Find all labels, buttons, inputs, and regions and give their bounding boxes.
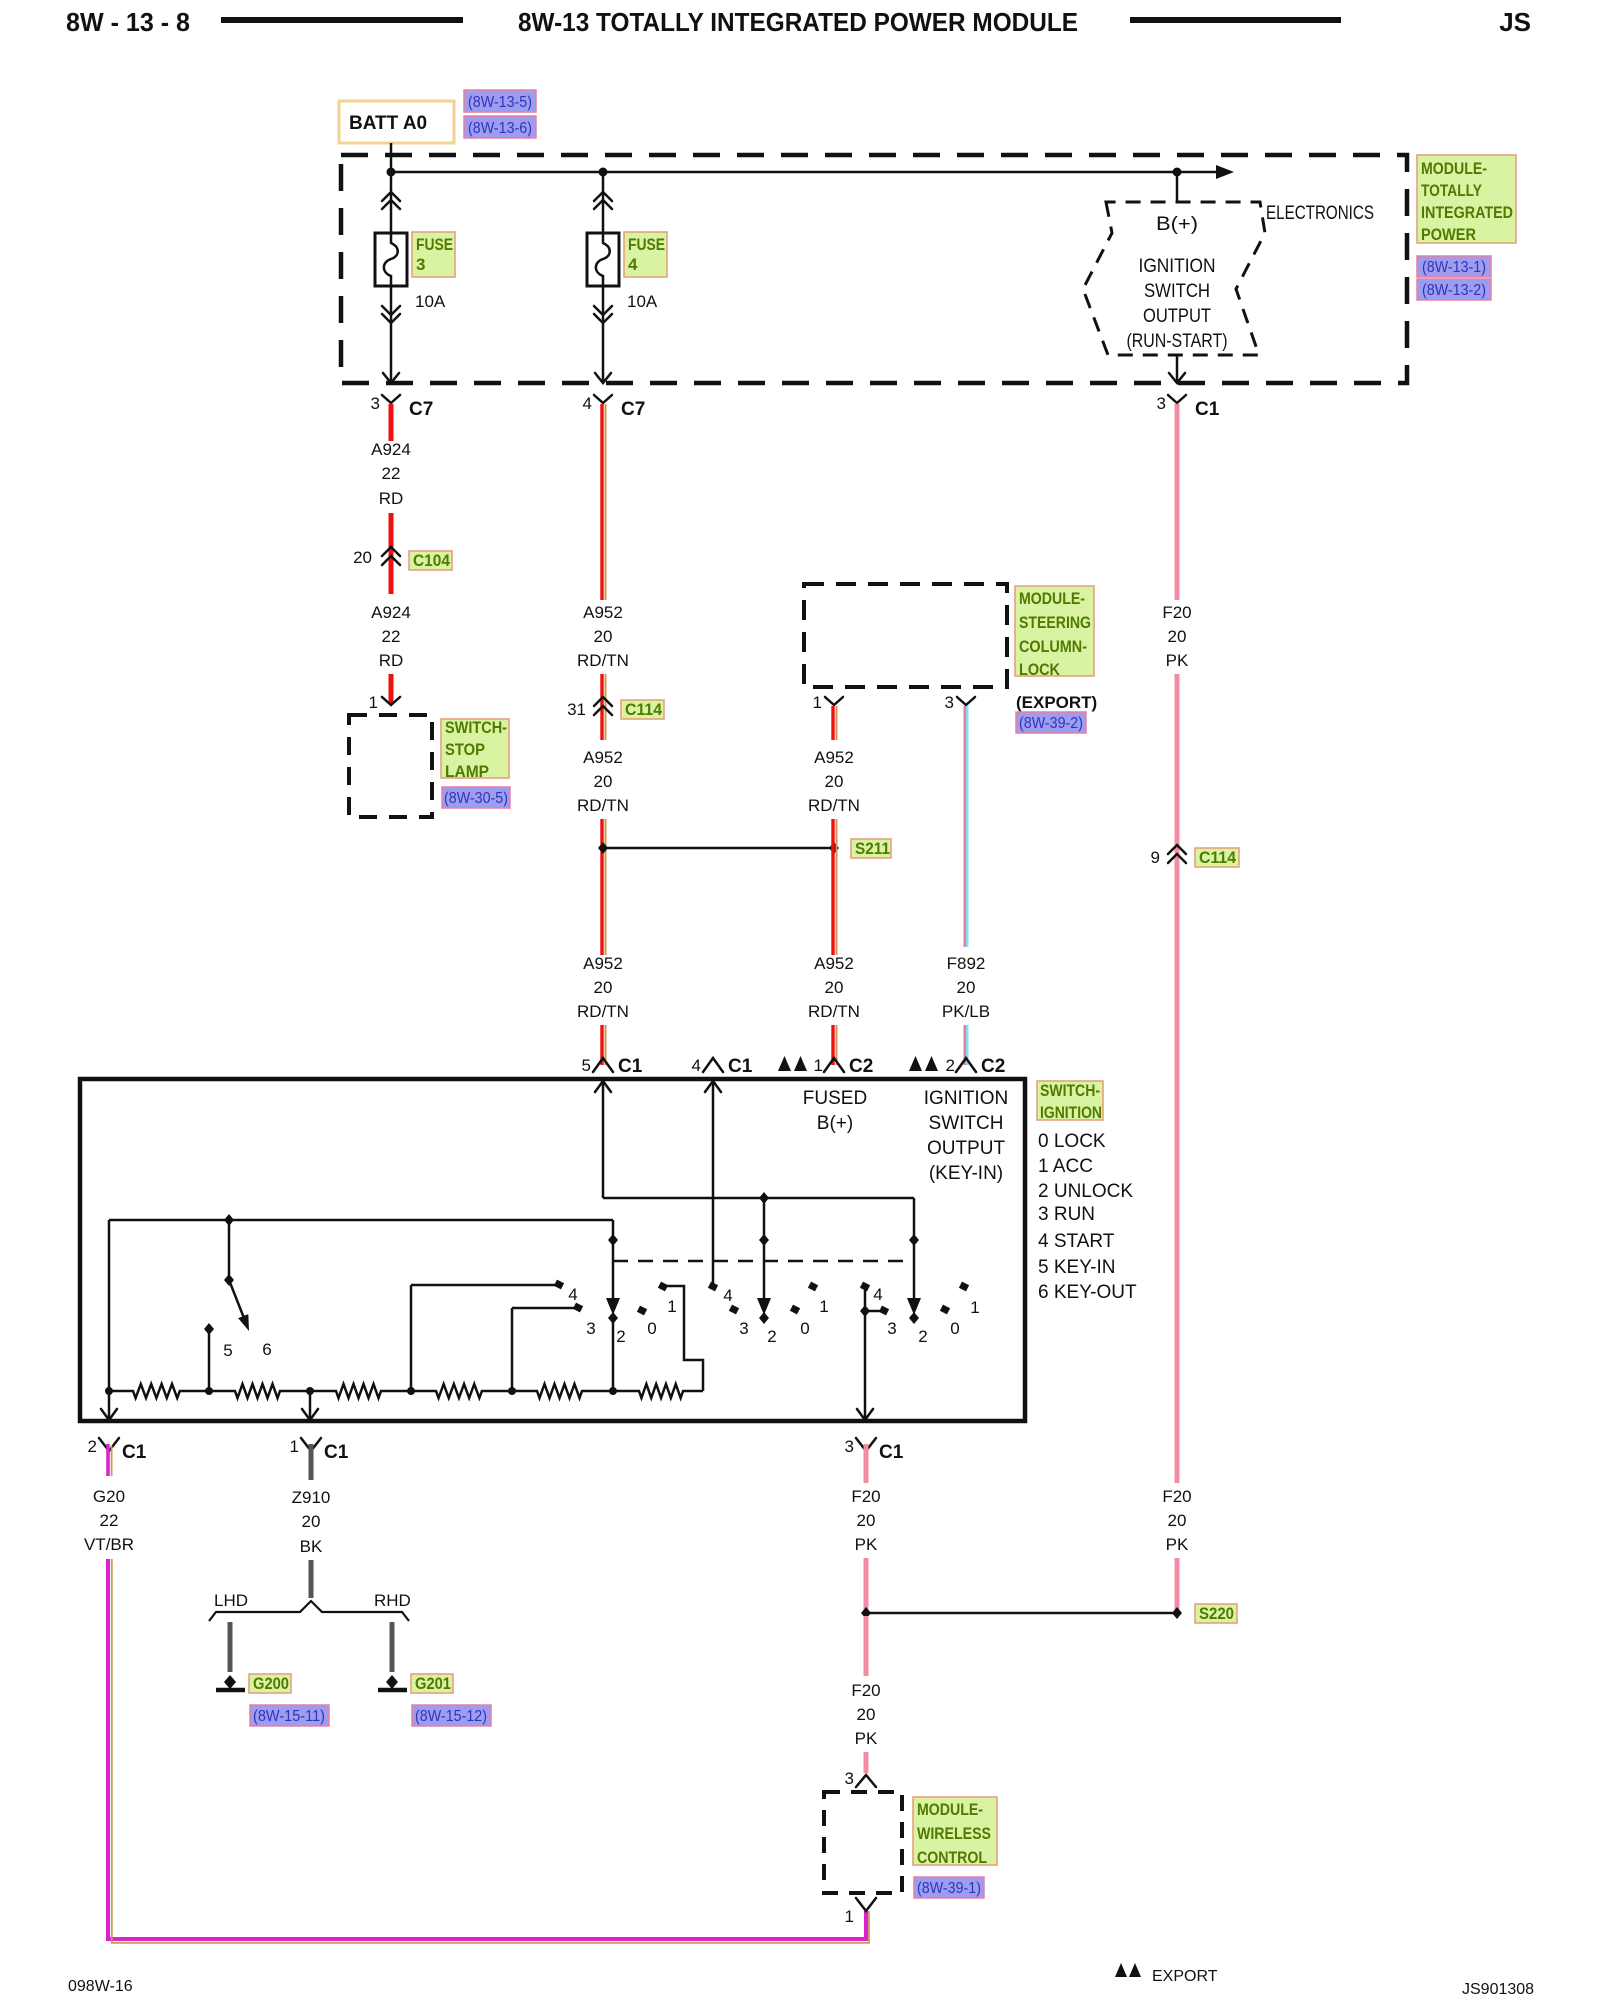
svg-text:3: 3 bbox=[416, 255, 425, 274]
label A924 22 RD lower bbox=[371, 603, 411, 670]
svg-text:C114: C114 bbox=[625, 700, 663, 719]
svg-text:20: 20 bbox=[594, 627, 613, 646]
svg-text:S211: S211 bbox=[855, 839, 890, 858]
footer drawing number bbox=[1462, 1981, 1534, 1998]
svg-text:4 START: 4 START bbox=[1038, 1231, 1115, 1252]
wire F20 PK from switch bbox=[864, 1444, 869, 1483]
svg-text:4: 4 bbox=[873, 1285, 882, 1304]
svg-text:C1: C1 bbox=[618, 1056, 643, 1077]
svg-text:20: 20 bbox=[594, 978, 613, 997]
label C114 right bbox=[1195, 848, 1239, 867]
svg-text:CONTROL: CONTROL bbox=[917, 1848, 987, 1867]
wire F20 PK below S220 bbox=[864, 1616, 869, 1676]
wire B+ bus bbox=[391, 171, 1216, 174]
svg-text:C7: C7 bbox=[621, 399, 645, 420]
label G200 bbox=[249, 1674, 291, 1693]
wire F20 PK to S220 bbox=[1175, 1558, 1180, 1610]
bank2 contact 3 bbox=[729, 1305, 749, 1338]
svg-text:20: 20 bbox=[957, 978, 976, 997]
link 8W-30-5 bbox=[442, 787, 510, 808]
svg-text:22: 22 bbox=[382, 464, 401, 483]
svg-text:RD/TN: RD/TN bbox=[577, 651, 629, 670]
svg-text:10A: 10A bbox=[415, 292, 446, 311]
svg-text:PK: PK bbox=[855, 1729, 878, 1748]
svg-text:5: 5 bbox=[223, 1341, 232, 1360]
svg-text:C1: C1 bbox=[728, 1056, 753, 1077]
svg-text:A952: A952 bbox=[583, 954, 623, 973]
label MODULE-TOTALLY INTEGRATED POWER bbox=[1417, 155, 1516, 244]
switch bank1 arm bbox=[606, 1220, 626, 1391]
switch bank3 arm bbox=[907, 1198, 928, 1346]
svg-text:F20: F20 bbox=[1162, 1487, 1191, 1506]
svg-text:20: 20 bbox=[825, 978, 844, 997]
label FUSE 3 bbox=[412, 232, 455, 277]
wire ignition output from C1 pin 4 bbox=[705, 1080, 721, 1284]
svg-text:OUTPUT: OUTPUT bbox=[1143, 306, 1211, 327]
svg-text:20: 20 bbox=[825, 772, 844, 791]
svg-text:(EXPORT): (EXPORT) bbox=[1016, 693, 1097, 712]
svg-text:20: 20 bbox=[1168, 627, 1187, 646]
wire key-in feed from C1 pin 5 bbox=[595, 1080, 914, 1198]
label S220 bbox=[1195, 1604, 1237, 1623]
switch left rail bbox=[101, 1220, 117, 1420]
connector wireless pin 1 bbox=[845, 1898, 876, 1926]
svg-text:JS: JS bbox=[1499, 7, 1531, 37]
resistive track bbox=[109, 1384, 703, 1398]
header page number bbox=[66, 7, 190, 37]
track output to C1 pin 1 bbox=[302, 1391, 318, 1420]
svg-text:0: 0 bbox=[800, 1319, 809, 1338]
svg-text:BATT A0: BATT A0 bbox=[349, 113, 427, 134]
svg-text:PK: PK bbox=[1166, 1535, 1189, 1554]
svg-text:1: 1 bbox=[290, 1437, 299, 1456]
label A952 20 RD/TN col B lower bbox=[577, 954, 629, 1021]
svg-text:LAMP: LAMP bbox=[445, 762, 489, 781]
link 8W-13-5 bbox=[464, 90, 536, 112]
svg-text:20: 20 bbox=[302, 1512, 321, 1531]
footer export legend bbox=[1115, 1963, 1218, 1985]
key lever bbox=[224, 1220, 249, 1331]
svg-text:SWITCH: SWITCH bbox=[929, 1113, 1004, 1134]
svg-text:8W-13 TOTALLY INTEGRATED POWER: 8W-13 TOTALLY INTEGRATED POWER MODULE bbox=[518, 7, 1078, 37]
link 8W-15-12 bbox=[412, 1705, 491, 1726]
svg-text:1: 1 bbox=[667, 1297, 676, 1316]
wire G20 VT/BR upper bbox=[108, 1444, 112, 1476]
svg-text:5: 5 bbox=[582, 1056, 591, 1075]
svg-text:Z910: Z910 bbox=[292, 1488, 331, 1507]
link 8W-15-11 bbox=[250, 1705, 329, 1726]
svg-text:(RUN-START): (RUN-START) bbox=[1127, 331, 1228, 352]
connector C1 pin 5 bbox=[582, 1056, 643, 1077]
wire F20 PK to wireless module bbox=[864, 1752, 869, 1773]
link 8W-13-1 bbox=[1417, 256, 1491, 277]
svg-text:4: 4 bbox=[723, 1286, 732, 1305]
label S211 bbox=[851, 839, 891, 858]
svg-text:10A: 10A bbox=[627, 292, 658, 311]
label 10A fuse 4 bbox=[627, 292, 658, 311]
label C114 bbox=[621, 700, 664, 719]
link 8W-13-6 bbox=[464, 116, 536, 138]
connector steering lock pin 3 bbox=[945, 693, 975, 712]
svg-text:A924: A924 bbox=[371, 440, 411, 459]
label F20 20 PK left lower bbox=[851, 1681, 880, 1748]
svg-text:TOTALLY: TOTALLY bbox=[1421, 181, 1483, 200]
svg-text:0: 0 bbox=[950, 1319, 959, 1338]
wire LHD ground leg bbox=[228, 1622, 233, 1672]
svg-text:(8W-15-11): (8W-15-11) bbox=[253, 1708, 325, 1725]
svg-text:3 RUN: 3 RUN bbox=[1038, 1204, 1095, 1225]
fuse F3 assembly bbox=[375, 172, 407, 383]
svg-text:20: 20 bbox=[1168, 1511, 1187, 1530]
svg-text:VT/BR: VT/BR bbox=[84, 1535, 134, 1554]
label FUSED B(+) bbox=[803, 1088, 867, 1134]
svg-text:(8W-13-6): (8W-13-6) bbox=[468, 120, 532, 137]
bank2 contact 0 bbox=[790, 1305, 810, 1338]
svg-text:G20: G20 bbox=[93, 1487, 125, 1506]
connector C2 pin 2 with export triangles bbox=[909, 1056, 1005, 1077]
svg-text:PK/LB: PK/LB bbox=[942, 1002, 990, 1021]
wire battery to bus bbox=[390, 143, 393, 172]
svg-text:C7: C7 bbox=[409, 399, 433, 420]
svg-text:SWITCH-: SWITCH- bbox=[1040, 1081, 1100, 1100]
label A924 22 RD upper bbox=[371, 440, 411, 508]
wire electronics output bbox=[1169, 355, 1185, 383]
connector steering lock pin 1 bbox=[813, 693, 843, 712]
svg-text:4: 4 bbox=[568, 1285, 577, 1304]
wire A952 through S211 left bbox=[602, 819, 606, 955]
ground G200 bbox=[216, 1675, 245, 1690]
svg-text:22: 22 bbox=[100, 1511, 119, 1530]
bank1 contact 0 bbox=[637, 1306, 657, 1338]
svg-text:A924: A924 bbox=[371, 603, 411, 622]
svg-text:2: 2 bbox=[767, 1327, 776, 1346]
link 8W-39-1 bbox=[914, 1877, 984, 1898]
switch stop lamp dashed box bbox=[349, 715, 432, 817]
link 8W-39-2 bbox=[1016, 712, 1086, 733]
svg-text:WIRELESS: WIRELESS bbox=[917, 1824, 991, 1843]
svg-text:20: 20 bbox=[857, 1511, 876, 1530]
junction at fuse 4 bbox=[599, 168, 608, 177]
connector C1 pin 1 bottom bbox=[290, 1437, 349, 1463]
link 8W-13-2 bbox=[1417, 279, 1491, 300]
svg-text:9: 9 bbox=[1151, 848, 1160, 867]
wire RHD ground leg bbox=[390, 1622, 395, 1672]
connector C1 pin 3 bottom bbox=[845, 1437, 904, 1463]
inline connector C114 pin 9 bbox=[1151, 845, 1186, 867]
fuse F4 assembly bbox=[587, 172, 619, 383]
svg-text:1: 1 bbox=[813, 693, 822, 712]
wire A952 to C114 bbox=[602, 674, 606, 740]
label Z910 20 BK bbox=[292, 1488, 331, 1556]
LHD RHD brace bbox=[209, 1591, 411, 1621]
svg-text:3: 3 bbox=[945, 693, 954, 712]
svg-text:FUSE: FUSE bbox=[628, 235, 665, 254]
mechanical link dashed bbox=[613, 1260, 914, 1263]
svg-text:A952: A952 bbox=[814, 748, 854, 767]
svg-text:(8W-39-1): (8W-39-1) bbox=[917, 1880, 981, 1897]
switch bank2 contact 4 bbox=[708, 1282, 733, 1305]
wire A924 to stop lamp switch bbox=[389, 674, 394, 704]
svg-text:2: 2 bbox=[88, 1437, 97, 1456]
svg-text:C1: C1 bbox=[122, 1442, 147, 1463]
bank3 contact 1 bbox=[959, 1282, 980, 1317]
svg-text:4: 4 bbox=[583, 394, 592, 413]
switch bank2 arm bbox=[757, 1198, 777, 1346]
svg-text:0 LOCK: 0 LOCK bbox=[1038, 1131, 1106, 1152]
svg-text:OUTPUT: OUTPUT bbox=[927, 1138, 1006, 1159]
svg-text:2: 2 bbox=[918, 1327, 927, 1346]
label FUSE 4 bbox=[624, 232, 667, 277]
svg-text:8W - 13 - 8: 8W - 13 - 8 bbox=[66, 7, 190, 37]
svg-text:RD/TN: RD/TN bbox=[577, 1002, 629, 1021]
wire A952 steering to label bbox=[833, 706, 837, 740]
connector C1 pin 3 TIPM bbox=[1157, 394, 1220, 420]
svg-text:C2: C2 bbox=[981, 1056, 1005, 1077]
svg-text:(KEY-IN): (KEY-IN) bbox=[929, 1163, 1003, 1184]
inline connector C104 bbox=[353, 547, 400, 567]
header left rule bbox=[221, 17, 463, 23]
svg-text:MODULE-: MODULE- bbox=[1019, 589, 1085, 608]
svg-text:3: 3 bbox=[371, 394, 380, 413]
wire A924 to C104 bbox=[389, 513, 394, 566]
svg-text:BK: BK bbox=[300, 1537, 323, 1556]
key-in contact 5 bbox=[204, 1323, 272, 1391]
module TIPM dashed boundary bbox=[341, 155, 1407, 383]
wire A952 RD/TN from C7 bbox=[602, 404, 606, 600]
svg-text:F892: F892 bbox=[947, 954, 986, 973]
svg-text:MODULE-: MODULE- bbox=[1421, 159, 1487, 178]
connector C7 pin 4 bbox=[583, 394, 646, 420]
wire Z910 BK upper bbox=[309, 1444, 314, 1480]
svg-text:20: 20 bbox=[857, 1705, 876, 1724]
svg-text:PK: PK bbox=[1166, 651, 1189, 670]
svg-text:4: 4 bbox=[692, 1056, 701, 1075]
wire F892 to C2 pin 2 bbox=[965, 1025, 968, 1065]
bank2 contact 1 bbox=[808, 1282, 829, 1316]
wire F892 PK/LB upper bbox=[965, 706, 968, 947]
footer sheet number bbox=[68, 1978, 133, 1995]
svg-text:STEERING: STEERING bbox=[1019, 613, 1091, 632]
svg-text:PK: PK bbox=[855, 1535, 878, 1554]
label G20 22 VT/BR bbox=[84, 1487, 134, 1554]
bank1 contact 3 bbox=[512, 1303, 596, 1391]
svg-text:POWER: POWER bbox=[1421, 225, 1476, 244]
svg-text:20: 20 bbox=[353, 548, 372, 567]
svg-text:RD/TN: RD/TN bbox=[808, 1002, 860, 1021]
junction bank2 arm feed bbox=[759, 1192, 769, 1204]
svg-text:0: 0 bbox=[647, 1319, 656, 1338]
wire A952 to C1 pin 5 bbox=[602, 1025, 606, 1065]
label F20 20 PK right lower bbox=[1162, 1487, 1191, 1554]
svg-text:3: 3 bbox=[1157, 394, 1166, 413]
svg-text:4: 4 bbox=[628, 255, 638, 274]
label C104 bbox=[409, 551, 452, 570]
svg-text:IGNITION: IGNITION bbox=[1139, 256, 1216, 277]
ignition switch box bbox=[80, 1079, 1025, 1421]
svg-text:EXPORT: EXPORT bbox=[1152, 1968, 1218, 1985]
header title bbox=[518, 7, 1078, 37]
bank1 contact 1 bbox=[658, 1282, 703, 1391]
junction at electronics bbox=[1173, 168, 1182, 177]
svg-text:1: 1 bbox=[819, 1297, 828, 1316]
splice S220 bbox=[861, 1607, 1182, 1619]
label (EXPORT) bbox=[1016, 693, 1097, 712]
svg-text:ELECTRONICS: ELECTRONICS bbox=[1266, 203, 1374, 224]
svg-text:IGNITION: IGNITION bbox=[1040, 1103, 1102, 1122]
svg-text:1: 1 bbox=[369, 693, 378, 712]
wire F20 PK upper bbox=[1175, 404, 1180, 600]
bank3 contact 0 bbox=[940, 1305, 960, 1338]
label MODULE-WIRELESS CONTROL bbox=[913, 1797, 997, 1867]
electronics cell outline bbox=[1083, 202, 1265, 355]
connector C2 pin 1 with export triangles bbox=[778, 1056, 873, 1077]
svg-text:C114: C114 bbox=[1199, 848, 1237, 867]
label F892 20 PK/LB bbox=[942, 954, 990, 1021]
splice S211 bbox=[598, 842, 839, 854]
svg-text:3: 3 bbox=[887, 1319, 896, 1338]
svg-text:FUSED: FUSED bbox=[803, 1088, 867, 1109]
battery feed box BATT A0 bbox=[339, 101, 454, 143]
svg-text:RD: RD bbox=[379, 489, 404, 508]
svg-text:SWITCH: SWITCH bbox=[1144, 281, 1210, 302]
label B(+) ignition switch output run-start bbox=[1127, 214, 1228, 352]
svg-text:C1: C1 bbox=[324, 1442, 349, 1463]
wire A924 below C104 bbox=[389, 566, 394, 594]
svg-text:(8W-39-2): (8W-39-2) bbox=[1019, 715, 1083, 732]
label IGNITION SWITCH OUTPUT KEY-IN bbox=[924, 1088, 1008, 1184]
wire bus to electronics bbox=[1176, 172, 1179, 202]
svg-text:(8W-13-1): (8W-13-1) bbox=[1422, 259, 1486, 276]
label A952 20 RD/TN col B upper bbox=[577, 603, 629, 670]
svg-text:B(+): B(+) bbox=[1156, 214, 1198, 235]
label G201 bbox=[411, 1674, 453, 1693]
svg-text:STOP: STOP bbox=[445, 740, 485, 759]
svg-text:MODULE-: MODULE- bbox=[917, 1800, 983, 1819]
label SWITCH-STOP LAMP bbox=[441, 718, 509, 781]
svg-text:C2: C2 bbox=[849, 1056, 873, 1077]
svg-text:2: 2 bbox=[946, 1056, 955, 1075]
connector C1 pin 4 bbox=[692, 1056, 753, 1077]
label A952 20 RD/TN col C upper bbox=[808, 748, 860, 815]
svg-text:F20: F20 bbox=[1162, 603, 1191, 622]
track junction dots bbox=[105, 1387, 617, 1395]
svg-text:(8W-15-12): (8W-15-12) bbox=[415, 1708, 487, 1725]
junction at fuse 3 bbox=[387, 168, 396, 177]
wire F20 PK to S220 bbox=[864, 1558, 869, 1610]
label A952 20 RD/TN col C lower bbox=[808, 954, 860, 1021]
svg-text:31: 31 bbox=[567, 700, 586, 719]
svg-text:IGNITION: IGNITION bbox=[924, 1088, 1008, 1109]
svg-text:1: 1 bbox=[970, 1298, 979, 1317]
svg-text:1 ACC: 1 ACC bbox=[1038, 1156, 1093, 1177]
header JS bbox=[1499, 7, 1531, 37]
svg-text:(8W-13-5): (8W-13-5) bbox=[468, 94, 532, 111]
connector C7 pin 3 bbox=[371, 394, 434, 420]
bus arrowhead bbox=[1216, 165, 1234, 179]
svg-text:1: 1 bbox=[845, 1907, 854, 1926]
svg-text:3: 3 bbox=[845, 1769, 854, 1788]
label MODULE-STEERING COLUMN-LOCK bbox=[1015, 586, 1094, 679]
header right rule bbox=[1130, 17, 1341, 23]
svg-text:C1: C1 bbox=[1195, 399, 1220, 420]
svg-text:6: 6 bbox=[262, 1340, 271, 1359]
svg-text:LOCK: LOCK bbox=[1019, 660, 1061, 679]
svg-text:3: 3 bbox=[586, 1319, 595, 1338]
svg-text:SWITCH-: SWITCH- bbox=[445, 718, 507, 737]
junction key lever bbox=[224, 1214, 234, 1226]
label F20 20 PK right upper bbox=[1162, 603, 1191, 670]
svg-text:(8W-13-2): (8W-13-2) bbox=[1422, 282, 1486, 299]
svg-text:22: 22 bbox=[382, 627, 401, 646]
label ELECTRONICS bbox=[1266, 203, 1374, 224]
bank1 contact 4 bbox=[411, 1280, 578, 1391]
svg-text:G200: G200 bbox=[253, 1674, 289, 1693]
ground G201 bbox=[378, 1675, 407, 1690]
bank3 contact 4 output bbox=[857, 1282, 897, 1420]
connector stop lamp pin 1 bbox=[369, 693, 400, 712]
svg-text:3: 3 bbox=[845, 1437, 854, 1456]
wire A952 to C2 pin 1 bbox=[833, 1025, 837, 1065]
connector wireless pin 3 bbox=[845, 1769, 876, 1788]
svg-text:1: 1 bbox=[814, 1056, 823, 1075]
label A952 20 RD/TN col B middle bbox=[577, 748, 629, 815]
svg-text:JS901308: JS901308 bbox=[1462, 1981, 1534, 1998]
wire A952 to S211 right bbox=[833, 819, 837, 955]
svg-text:S220: S220 bbox=[1199, 1604, 1234, 1623]
label 10A fuse 3 bbox=[415, 292, 446, 311]
wire A924 22 RD upper bbox=[389, 404, 394, 441]
connector C1 pin 2 bottom bbox=[88, 1437, 147, 1463]
svg-text:COLUMN-: COLUMN- bbox=[1019, 637, 1087, 656]
svg-text:FUSE: FUSE bbox=[416, 235, 453, 254]
svg-text:6 KEY-OUT: 6 KEY-OUT bbox=[1038, 1282, 1137, 1303]
label switch positions list bbox=[1038, 1131, 1137, 1303]
inline connector C114 pin 31 bbox=[567, 697, 612, 719]
wire F20 PK to C114 bbox=[1175, 674, 1180, 1483]
label F20 20 PK left upper bbox=[851, 1487, 880, 1554]
svg-text:RHD: RHD bbox=[374, 1591, 411, 1610]
svg-text:C104: C104 bbox=[413, 551, 450, 570]
switch bank1 supply line bbox=[109, 1219, 613, 1222]
svg-text:A952: A952 bbox=[583, 748, 623, 767]
module wireless control dashed box bbox=[824, 1792, 902, 1893]
svg-text:B(+): B(+) bbox=[817, 1113, 853, 1134]
svg-text:2: 2 bbox=[616, 1327, 625, 1346]
svg-text:2 UNLOCK: 2 UNLOCK bbox=[1038, 1181, 1133, 1202]
svg-text:098W-16: 098W-16 bbox=[68, 1978, 133, 1995]
svg-text:(8W-30-5): (8W-30-5) bbox=[444, 790, 508, 807]
svg-text:C1: C1 bbox=[879, 1442, 904, 1463]
svg-text:F20: F20 bbox=[851, 1681, 880, 1700]
svg-text:RD/TN: RD/TN bbox=[808, 796, 860, 815]
svg-text:A952: A952 bbox=[583, 603, 623, 622]
svg-text:5 KEY-IN: 5 KEY-IN bbox=[1038, 1257, 1115, 1278]
svg-text:RD: RD bbox=[379, 651, 404, 670]
wire G20 long run to wireless module bbox=[108, 1559, 869, 1943]
svg-text:RD/TN: RD/TN bbox=[577, 796, 629, 815]
svg-text:A952: A952 bbox=[814, 954, 854, 973]
svg-text:20: 20 bbox=[594, 772, 613, 791]
svg-text:3: 3 bbox=[739, 1319, 748, 1338]
label SWITCH-IGNITION bbox=[1037, 1081, 1103, 1122]
svg-text:G201: G201 bbox=[415, 1674, 451, 1693]
wire Z910 BK to brace bbox=[309, 1560, 314, 1598]
module steering column lock dashed box bbox=[804, 584, 1007, 687]
svg-text:F20: F20 bbox=[851, 1487, 880, 1506]
svg-text:LHD: LHD bbox=[214, 1591, 248, 1610]
svg-text:INTEGRATED: INTEGRATED bbox=[1421, 203, 1513, 222]
